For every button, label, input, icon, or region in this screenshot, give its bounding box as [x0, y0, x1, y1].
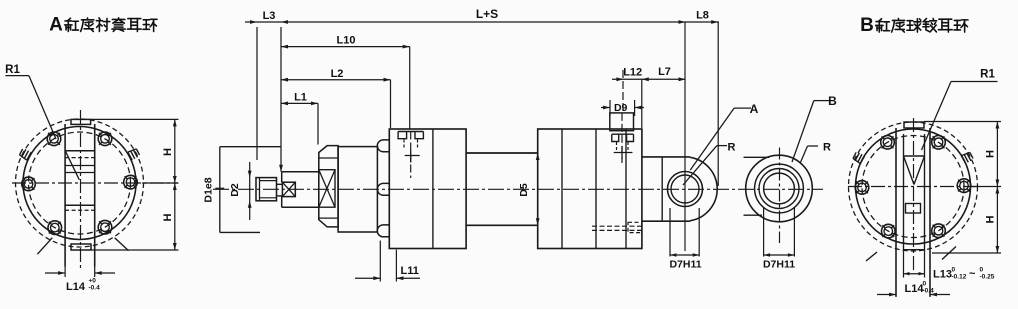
dimension D2 line	[249, 162, 251, 220]
extension/centerline x=685 (L+S to eye center)	[684, 22, 686, 251]
svg-text:L+S: L+S	[476, 7, 498, 21]
svg-text:0: 0	[980, 267, 984, 274]
tie-rod tab middle	[377, 183, 389, 195]
svg-text:L1: L1	[294, 91, 307, 103]
svg-text:-0.25: -0.25	[980, 274, 995, 281]
B-view vertical centerline	[913, 118, 915, 272]
B-view lower-right slash	[942, 247, 956, 260]
A-view vertical centerline	[80, 110, 82, 270]
D9 port boss	[610, 113, 634, 131]
A-view bushing chords	[65, 150, 95, 152]
svg-text:L11: L11	[401, 265, 419, 277]
dimension L2	[281, 79, 391, 81]
extension line x=281 with end arrow	[280, 27, 282, 172]
eye B bore	[764, 173, 795, 204]
D1e8 bracket top	[220, 146, 281, 148]
eye B vertical centerline	[779, 148, 781, 244]
cushion passage (dashed)	[592, 225, 642, 227]
B-view clevis slot outer edges	[895, 128, 897, 297]
svg-text:L10: L10	[337, 34, 356, 46]
D1e8 bracket bottom	[220, 231, 260, 233]
cylinder head block	[389, 129, 466, 249]
dimension H upper (B-view)	[924, 121, 1001, 123]
cylinder tube	[466, 152, 538, 154]
svg-text:L2: L2	[331, 68, 344, 80]
gland neck	[282, 171, 319, 173]
A-view flange solid circle	[23, 127, 136, 240]
A-view bolt circle (dashed)	[29, 132, 131, 234]
eye B outer ring	[746, 155, 813, 222]
dimension L14 (B-view)	[877, 294, 896, 296]
svg-text:H: H	[985, 150, 997, 158]
eye A bushing bore	[668, 172, 703, 207]
svg-text:R1: R1	[980, 69, 995, 81]
svg-text:B: B	[860, 15, 874, 36]
svg-text:D9: D9	[614, 102, 628, 114]
dimension L11	[379, 241, 381, 282]
A-view lower-left slash	[37, 238, 52, 255]
svg-text:+0: +0	[89, 278, 97, 285]
svg-text:B: B	[828, 94, 837, 108]
rod neck between thread and nut	[277, 183, 283, 185]
svg-text:D7H11: D7H11	[763, 259, 795, 271]
B-view horizontal centerline	[848, 186, 978, 188]
B-view bolts (6x socket screws)	[957, 179, 971, 193]
B-view serration marks right	[961, 156, 965, 164]
svg-text:D2: D2	[229, 183, 241, 197]
B-view bottom tab line	[904, 249, 925, 251]
dimension L14 (A-view)	[64, 267, 66, 278]
svg-text:A: A	[750, 102, 759, 116]
lock nut (X-box)	[282, 182, 295, 196]
cap block	[538, 129, 642, 249]
svg-text:D1e8: D1e8	[203, 177, 215, 202]
svg-text:-0.4: -0.4	[923, 288, 935, 295]
svg-text:0: 0	[923, 281, 927, 288]
gland with chamfers	[319, 146, 338, 227]
dimension L12	[612, 78, 642, 80]
svg-text:L14: L14	[66, 281, 86, 293]
eye B stub lines	[744, 156, 770, 158]
svg-text:0: 0	[952, 267, 956, 274]
A-view serration marks left (10 o'clock)	[27, 152, 31, 160]
svg-text:L3: L3	[263, 10, 276, 22]
svg-text:H: H	[162, 213, 174, 221]
svg-text:L13: L13	[933, 269, 952, 281]
A-view bolts (6x socket screws)	[124, 175, 138, 189]
dimension D7H11 (eye B)	[763, 207, 765, 257]
D9 port centerline	[622, 70, 624, 113]
D1e8 center tick	[215, 187, 224, 189]
A-view slot right edge	[94, 124, 96, 267]
dimension L1	[281, 102, 318, 104]
dimension L10	[281, 46, 410, 48]
svg-text:D7H11: D7H11	[669, 259, 701, 271]
extension line x=718.2 (L8)	[717, 22, 719, 186]
dimension D5	[536, 153, 540, 160]
svg-text:H: H	[162, 148, 174, 156]
svg-text:L7: L7	[658, 66, 671, 78]
svg-text:L12: L12	[623, 67, 642, 79]
svg-text:L14: L14	[905, 283, 925, 295]
eye A body	[642, 156, 690, 158]
dimension H upper (A-view)	[91, 118, 179, 120]
svg-text:R1: R1	[5, 64, 20, 76]
A-view horizontal centerline	[12, 182, 178, 184]
B-view pin block	[906, 204, 921, 214]
A-view slot left edge	[64, 124, 66, 267]
A-view outer dashed circle	[16, 119, 144, 247]
extension line x=257	[256, 27, 258, 160]
head flange plate	[338, 147, 377, 232]
A-view lower-right slash	[115, 238, 129, 251]
B-view outer dashed circle	[849, 122, 978, 251]
piston rod thread block	[256, 178, 277, 201]
B-view lower-left slash	[866, 252, 877, 261]
A-view serration marks right (2 o'clock)	[128, 152, 132, 160]
D9 port recess	[612, 133, 634, 135]
dimension L7	[642, 78, 686, 80]
B-view ball socket taper (V)	[904, 155, 925, 157]
svg-text:-0.4: -0.4	[89, 285, 101, 292]
tie-rod tab top	[377, 140, 389, 152]
svg-text:D5: D5	[518, 183, 530, 197]
svg-text:R: R	[823, 142, 831, 154]
svg-text:A: A	[49, 15, 63, 36]
A-view bottom keyway tab	[71, 244, 91, 250]
dimension D7H11 (eye A)	[669, 208, 671, 257]
svg-text:H: H	[985, 215, 997, 223]
svg-text:R: R	[728, 142, 736, 154]
dimension line y=22 (L3 / L+S / L8)	[245, 21, 719, 23]
head port recess	[398, 131, 423, 133]
main horizontal centerline	[213, 188, 823, 190]
tie-rod tab bottom	[377, 225, 389, 237]
B-view top keyway tab	[904, 122, 924, 128]
A-view top keyway tab	[71, 119, 91, 124]
svg-text:~: ~	[969, 268, 976, 280]
svg-text:-0.12: -0.12	[952, 274, 967, 281]
dimension L13	[903, 252, 905, 278]
D1e8 bracket vertical	[219, 147, 221, 233]
eye B bearing races	[755, 164, 804, 213]
head port centerline	[410, 132, 412, 179]
B-view flange solid circle	[856, 129, 971, 244]
B-view bolt circle (dashed)	[862, 136, 964, 238]
svg-text:L8: L8	[696, 10, 709, 22]
B-view serration marks left	[860, 156, 864, 164]
B-view slot inner edges	[903, 134, 905, 252]
gland seal X-box	[319, 170, 335, 208]
A-view bushing chamfer diagonal	[66, 151, 80, 180]
